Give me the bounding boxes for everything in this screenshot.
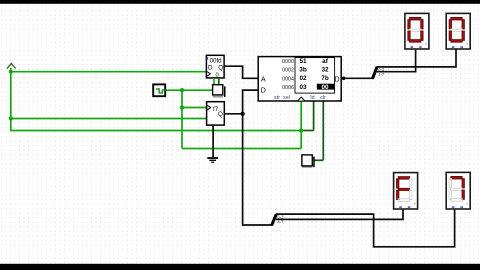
svg-text:D: D [334,76,339,83]
svg-text:A: A [261,77,266,84]
wire: RAM clr pin vertical x323 [322,101,324,160]
wire: clr to button B2 [314,159,324,161]
svg-text:clr: clr [320,95,326,101]
svg-text:0004: 0004 [282,76,294,82]
wire: register bottom pin 1 [213,78,215,85]
wire: RAM clock pin vertical x301 [300,101,302,149]
svg-text:03: 03 [299,84,307,91]
svg-text:7b: 7b [321,75,329,82]
wire: counter bottom to ground [212,125,214,158]
wire: vertical x242.5 down to splitter [243,90,272,225]
svg-text:Q: Q [218,64,223,71]
wire: splitter1 lower leg to display1 [377,49,416,72]
svg-text:00fd: 00fd [210,57,223,64]
wire: counter Q output [224,113,242,115]
node on bus at y71.7 [9,70,13,74]
button B2 [302,155,315,168]
node junction counterQ [240,112,244,116]
svg-text:0006: 0006 [282,85,294,91]
wire: left bus vertical [10,68,12,131]
svg-text:51: 51 [299,58,307,65]
svg-text:02: 02 [299,75,307,82]
wire: dark segment y130.5 to ld leg [301,130,313,132]
wire: long horizontal y130.5 [10,130,301,132]
svg-text:32: 32 [321,67,329,74]
splitter S2 [272,214,285,225]
wire: RAM ld pin vertical x313 [313,101,315,131]
svg-text:ld: ld [310,95,314,101]
svg-text:0: 0 [216,73,219,79]
wire: horizontal to counter enable [10,118,207,120]
svg-text:00: 00 [321,84,329,91]
letterbox bar top [0,0,480,4]
wire: splitter1 upper leg to display2 [377,49,457,67]
node clock junction [180,88,184,92]
RAM data grid [295,58,335,94]
svg-text:D: D [208,64,213,71]
letterbox bar bottom [0,264,480,270]
svg-text:D: D [261,88,266,95]
7-segment display DS1 (0) [405,13,429,49]
node on bus at y118.5 [9,116,13,120]
svg-text:af: af [322,58,329,65]
wire: top horizontal to register D [10,71,207,73]
wire: vertical x182 [181,90,183,148]
node at x182 y107.5 [180,105,184,109]
counter U2 (f7) [207,102,225,125]
wire: splitter2 upper leg y214 to display4 [276,209,455,247]
svg-text:Q: Q [218,111,223,118]
wire: to counter clock [182,107,207,109]
svg-text:3b: 3b [299,67,307,74]
node at x301 y130.5 [299,128,303,132]
7-segment display DS4 (7) [446,172,470,209]
svg-text:str: str [274,95,280,101]
wire: register bottom pin 2 [218,78,220,85]
clock CLK1 [153,84,165,96]
7-segment display DS2 (0) [446,13,470,49]
7-segment display DS3 (F) [394,173,418,209]
register U1 (00fd) [206,55,224,78]
button B1 [213,85,226,98]
svg-text:0000: 0000 [282,59,294,65]
wire: clock output to button B1 [165,89,213,91]
wire: RAM D output [341,77,373,79]
svg-text:4-7: 4-7 [378,72,385,77]
RAM U3 [258,57,341,101]
node RAM D pin [342,77,346,81]
splitter S1 [372,67,385,79]
ground [207,158,218,162]
wire: horizontal y148.5 [182,148,301,150]
power symbol (chevron) [7,63,16,68]
svg-text:0002: 0002 [282,68,294,74]
RAM highlighted cell [317,84,334,90]
svg-text:sel: sel [283,95,290,101]
RAM clock marker [298,97,305,100]
wire: splitter2 lower leg y219.3 to display3 [276,209,403,219]
wire: register Q to RAM A [224,66,258,78]
